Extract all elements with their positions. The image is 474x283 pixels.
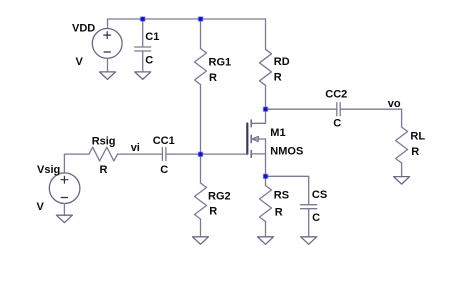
value V of VDD: [76, 56, 84, 68]
svg-text:R: R: [209, 205, 217, 217]
wire C1 top lead from node: [142, 19, 144, 47]
ground under C1: [135, 72, 151, 80]
wire C1 bottom lead: [142, 51, 144, 72]
wire RS top lead: [265, 176, 267, 185]
svg-text:CC2: CC2: [325, 88, 347, 100]
svg-text:R: R: [275, 207, 283, 219]
label C1: [145, 31, 159, 43]
resistor RG1: [195, 49, 207, 85]
wire RD top lead: [265, 19, 267, 49]
value R of Rsig: [100, 164, 108, 176]
wire VDD source bottom lead: [107, 58, 109, 72]
node junction on rail at RG1: [199, 17, 203, 21]
resistor RG2: [195, 183, 207, 219]
label M1: [270, 127, 285, 139]
wire top rail VDD to RD: [108, 18, 266, 20]
voltage source VDD: [92, 29, 122, 59]
ground under VDD: [100, 72, 116, 80]
ground under CS: [301, 237, 317, 245]
wire RL bottom lead: [401, 163, 403, 177]
label Vsig: [37, 164, 60, 176]
wire VDD source top lead: [107, 19, 109, 29]
svg-text:V: V: [37, 201, 45, 213]
svg-text:RG2: RG2: [208, 190, 231, 202]
wire RG2 top lead: [200, 154, 202, 183]
wire CS bottom lead: [308, 209, 310, 237]
wire RS bottom lead: [265, 222, 267, 237]
capacitor CC1: [162, 148, 166, 161]
wire CC2 to vo corner: [340, 108, 401, 110]
value C of C1: [145, 54, 153, 66]
wire CC1 to MOSFET gate: [166, 153, 247, 155]
ground under RG2: [193, 237, 209, 245]
svg-text:RD: RD: [274, 56, 290, 68]
svg-text:CC1: CC1: [153, 135, 175, 147]
label RL: [410, 131, 425, 143]
resistor Rsig: [89, 147, 118, 161]
svg-text:RS: RS: [274, 190, 289, 202]
node label vi: [131, 142, 140, 154]
wire RG2 bottom lead: [200, 219, 202, 237]
svg-text:Rsig: Rsig: [92, 135, 116, 147]
resistor RD: [260, 49, 272, 85]
wire RG1 bottom lead to gate node: [200, 85, 202, 155]
svg-text:C: C: [333, 117, 341, 129]
svg-text:RG1: RG1: [209, 57, 232, 69]
svg-text:C1: C1: [145, 31, 159, 43]
capacitor C1: [135, 47, 151, 51]
ground under RL: [394, 177, 410, 185]
svg-text:Vsig: Vsig: [37, 164, 60, 176]
label Rsig: [92, 135, 116, 147]
wire source node to CS: [266, 176, 309, 204]
wire output drain node to CC2: [266, 108, 337, 110]
svg-text:R: R: [411, 146, 419, 158]
svg-text:C: C: [145, 54, 153, 66]
svg-text:R: R: [274, 72, 282, 84]
label CS: [312, 189, 327, 201]
ground under RS: [258, 237, 274, 245]
resistor RS: [260, 186, 272, 222]
wire RL top lead: [401, 109, 403, 127]
wire Vsig bottom lead: [63, 204, 65, 216]
capacitor CC2: [337, 103, 340, 116]
wire Rsig to CC1 (node vi): [118, 153, 163, 155]
wire Vsig top lead corner: [64, 154, 89, 173]
svg-text:CS: CS: [312, 189, 327, 201]
label RG2: [208, 190, 231, 202]
label RD: [274, 56, 290, 68]
node drain junction: [263, 107, 267, 111]
value C of CC2: [333, 117, 341, 129]
svg-text:C: C: [312, 212, 320, 224]
svg-text:RL: RL: [410, 131, 425, 143]
label RS: [274, 190, 289, 202]
svg-text:M1: M1: [270, 127, 285, 139]
label CC2: [325, 88, 347, 100]
wire MOSFET source to source node: [265, 154, 267, 176]
svg-text:C: C: [160, 164, 168, 176]
value V of Vsig: [37, 201, 45, 213]
label RG1: [209, 57, 232, 69]
value NMOS of M1: [270, 146, 303, 158]
svg-text:R: R: [209, 72, 217, 84]
svg-text:vo: vo: [388, 98, 401, 110]
resistor RL: [396, 127, 408, 163]
value R of RL: [411, 146, 419, 158]
value R of RG2: [209, 205, 217, 217]
node source junction: [263, 174, 267, 178]
transistor M1 NMOS: [247, 120, 265, 157]
node junction on rail at C1: [141, 17, 145, 21]
value R of RS: [275, 207, 283, 219]
node label vo: [388, 98, 401, 110]
wire drain node to MOSFET drain: [265, 109, 267, 123]
label CC1: [153, 135, 175, 147]
svg-text:V: V: [76, 56, 84, 68]
value C of CC1: [160, 164, 168, 176]
voltage source Vsig: [49, 173, 80, 204]
svg-text:R: R: [100, 164, 108, 176]
value C of CS: [312, 212, 320, 224]
svg-text:NMOS: NMOS: [270, 146, 303, 158]
svg-text:VDD: VDD: [72, 22, 95, 34]
value R of RD: [274, 72, 282, 84]
value R of RG1: [209, 72, 217, 84]
capacitor CS: [301, 205, 317, 209]
label VDD: [72, 22, 95, 34]
svg-text:vi: vi: [131, 142, 140, 154]
ground under Vsig: [56, 215, 72, 223]
node vi gate junction: [198, 152, 202, 156]
wire RG1 top lead: [200, 19, 202, 49]
wire RD bottom lead to drain node: [265, 85, 267, 109]
